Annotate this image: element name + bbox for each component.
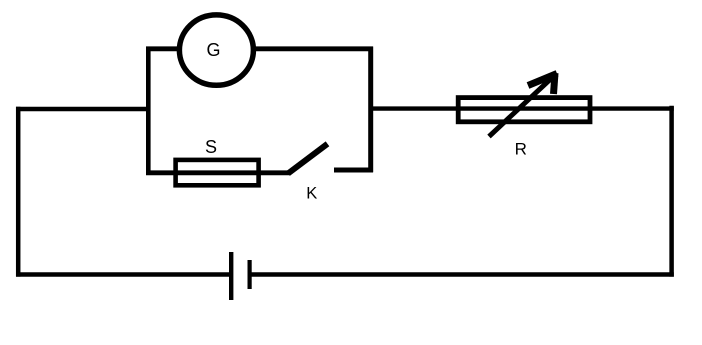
wire: bottom horizontal left of battery — [16, 272, 231, 276]
rheostat arrow shaft — [489, 74, 557, 137]
resistor S (shunt box) — [176, 160, 259, 185]
switch K blade — [288, 144, 328, 174]
svg-text:S: S — [205, 137, 217, 157]
wire: main horizontal through rheostat (node B to right vertical) — [371, 106, 674, 110]
rheostat arrowhead barb upper — [528, 74, 557, 86]
rheostat arrowhead barb right — [554, 73, 556, 94]
battery short plate (negative) — [248, 260, 252, 289]
wire: top branch left segment to galvanometer — [146, 46, 178, 51]
rheostat R box — [458, 98, 590, 122]
wire: bottom horizontal right of battery — [250, 272, 674, 276]
wire: outer right vertical — [669, 106, 674, 277]
galvanometer G — [179, 15, 253, 85]
wire: left branch vertical — [146, 47, 151, 176]
wire: outer left vertical — [16, 107, 21, 277]
battery long plate (positive) — [229, 252, 233, 300]
svg-text:K: K — [306, 184, 317, 202]
svg-text:G: G — [206, 40, 220, 60]
wire: right branch vertical — [368, 47, 373, 173]
svg-text:R: R — [515, 139, 527, 158]
wire: top branch right segment from galvanometer — [255, 46, 373, 51]
switch K fixed contact — [334, 168, 373, 173]
wire: top-left horizontal to node A — [16, 107, 151, 111]
wire: lower branch from node A through shunt S to switch — [146, 170, 289, 175]
